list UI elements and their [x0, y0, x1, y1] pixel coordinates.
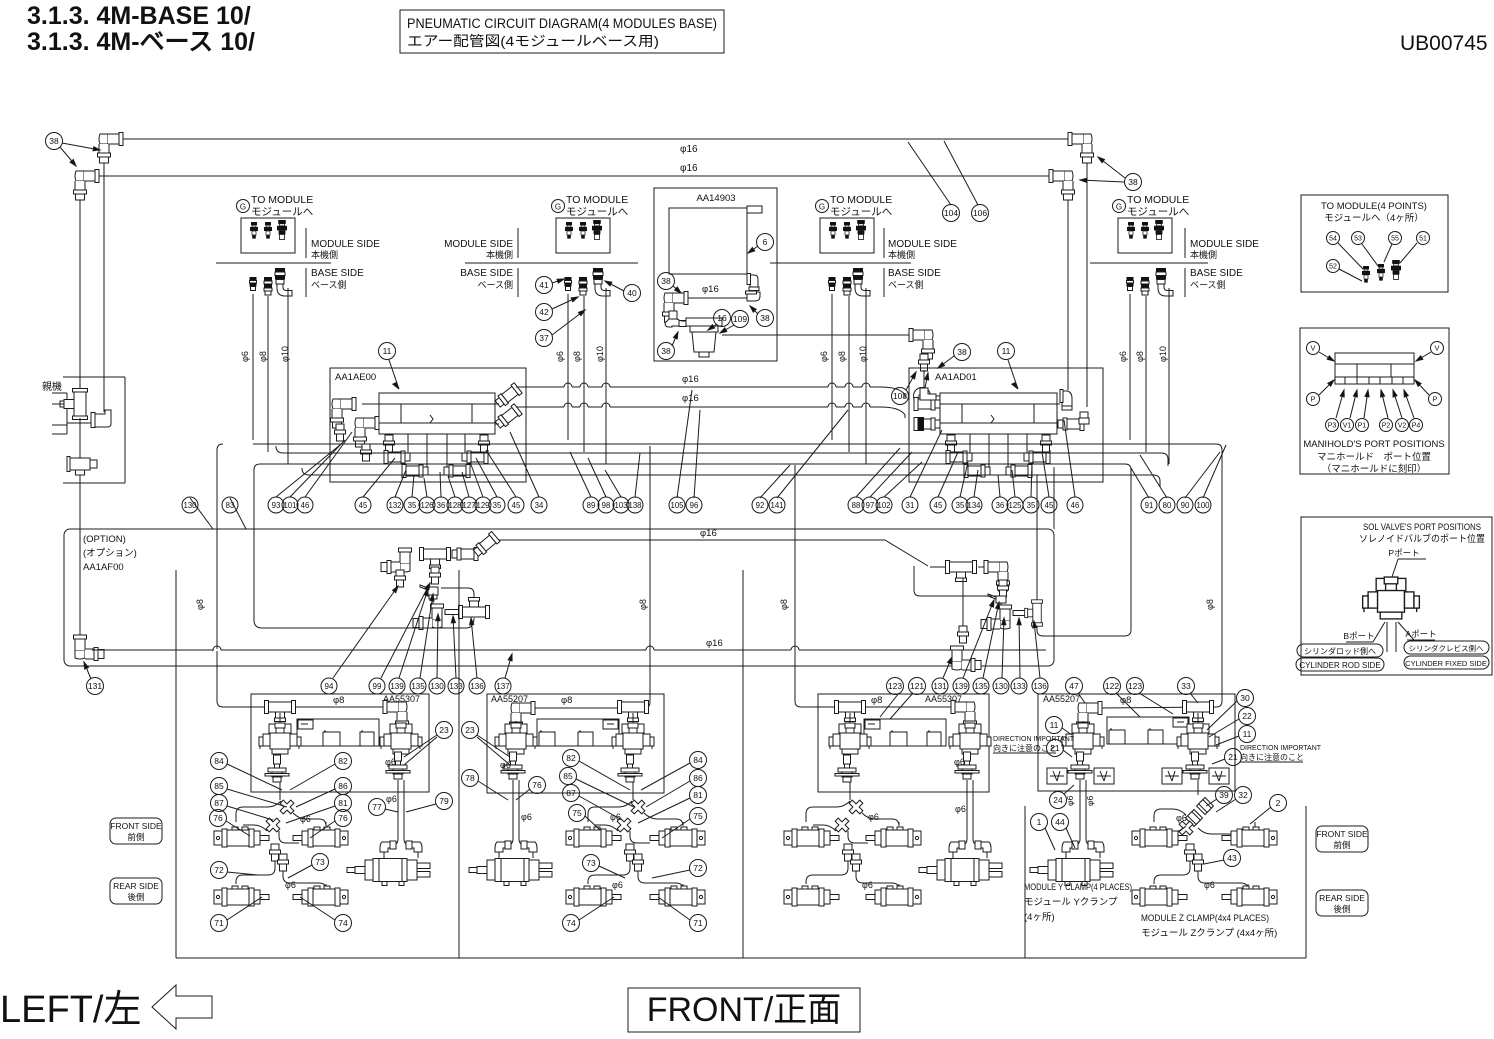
svg-text:後側: 後側: [1333, 904, 1350, 914]
lower tee fitting: [67, 457, 97, 476]
base side fittings section1: [250, 277, 257, 291]
center-left stack below tee: [431, 568, 433, 572]
svg-text:φ16: φ16: [706, 638, 723, 649]
SOL VALVE PORT POSITIONS box: [1301, 517, 1492, 675]
elbow at x108: [91, 410, 111, 428]
balloon 36: [992, 497, 1008, 513]
svg-text:80: 80: [1163, 501, 1172, 510]
clamp group 4 box AA55207: [1038, 694, 1235, 791]
svg-text:φ16: φ16: [680, 163, 698, 174]
balloon 92: [752, 497, 768, 513]
svg-text:133: 133: [449, 682, 463, 691]
group2 valve right: [632, 713, 634, 726]
svg-text:135: 135: [974, 682, 988, 691]
svg-text:φ6: φ6: [1176, 813, 1187, 823]
svg-text:FRONT SIDE: FRONT SIDE: [110, 821, 162, 831]
svg-text:φ6: φ6: [1204, 880, 1215, 890]
balloon 31: [902, 497, 918, 513]
AE00 right diagonal fittings: [494, 383, 522, 409]
group4 top pipe: [1100, 707, 1216, 708]
group1 valve left: [279, 713, 281, 726]
balloon 85: [211, 778, 228, 795]
svg-text:123: 123: [888, 681, 902, 691]
balloon 35: [952, 497, 968, 513]
svg-text:TO MODULE: TO MODULE: [830, 194, 892, 206]
group1 cross fittings: [276, 796, 297, 817]
balloon 24: [1050, 792, 1067, 809]
svg-text:P: P: [1310, 395, 1315, 404]
balloon P: [1307, 393, 1320, 406]
svg-text:前側: 前側: [127, 832, 144, 842]
group1 lower fittings: [270, 844, 281, 861]
svg-text:φ6: φ6: [954, 757, 965, 767]
group3 top pipe: [801, 706, 958, 708]
svg-text:94: 94: [325, 682, 334, 691]
balloon 84: [690, 752, 707, 769]
svg-text:本機側: 本機側: [1190, 249, 1217, 260]
svg-text:130: 130: [994, 682, 1008, 691]
svg-text:ソレノイドバルブのポート位置: ソレノイドバルブのポート位置: [1359, 533, 1485, 545]
svg-text:φ6: φ6: [819, 351, 829, 362]
balloon 91: [1141, 497, 1157, 513]
svg-text:46: 46: [1071, 501, 1080, 510]
svg-text:123: 123: [1128, 681, 1142, 691]
balloon 41: [536, 277, 553, 294]
balloon 131: [932, 678, 948, 694]
svg-text:91: 91: [1145, 501, 1154, 510]
balloon 135: [973, 678, 989, 694]
balloon 21: [1225, 749, 1242, 766]
balloon 82: [563, 750, 580, 767]
balloon 38: [757, 310, 774, 327]
svg-text:74: 74: [566, 918, 576, 928]
balloon 34: [531, 497, 547, 513]
balloon P2: [1380, 419, 1393, 432]
svg-text:136: 136: [1033, 682, 1047, 691]
wire: lower line to left bus vertical: [466, 618, 474, 628]
balloon 75: [690, 808, 707, 825]
balloon 38: [954, 344, 971, 361]
group4 diamond fittings: [1197, 798, 1214, 815]
svg-text:35: 35: [408, 501, 417, 510]
svg-text:53: 53: [1354, 236, 1362, 243]
balloon P: [1429, 393, 1442, 406]
balloon 85: [560, 768, 577, 785]
svg-text:φ16: φ16: [700, 528, 717, 539]
balloon 78: [462, 770, 479, 787]
svg-text:φ6: φ6: [285, 880, 296, 890]
bus line L4: [302, 468, 1160, 481]
svg-text:P2: P2: [1382, 423, 1391, 430]
svg-text:(4ヶ所): (4ヶ所): [1024, 912, 1055, 923]
svg-text:86: 86: [338, 781, 348, 791]
center-right elbow turning down: [984, 561, 1010, 592]
balloon 130: [182, 497, 198, 513]
svg-text:75: 75: [572, 808, 582, 818]
svg-text:AA1AD01: AA1AD01: [935, 372, 977, 383]
svg-text:46: 46: [301, 501, 310, 510]
svg-text:38: 38: [661, 276, 671, 286]
TO MODULE label group at x=268: [237, 200, 250, 213]
svg-text:V1: V1: [1343, 423, 1352, 430]
svg-text:35: 35: [956, 501, 965, 510]
lower elbow/pipe/tee chain: [432, 599, 434, 605]
svg-text:87: 87: [214, 798, 224, 808]
balloon 96: [686, 497, 702, 513]
balloon 42: [536, 304, 553, 321]
svg-text:SOL VALVE'S PORT POSITIONS: SOL VALVE'S PORT POSITIONS: [1363, 522, 1481, 533]
svg-text:137: 137: [496, 682, 510, 691]
elbow left inside AA14903: [663, 292, 689, 323]
svg-text:11: 11: [1002, 346, 1011, 356]
group4 lower fittings: [1185, 844, 1196, 861]
manifold body AE00: [379, 393, 495, 434]
balloon 2: [1270, 795, 1287, 812]
svg-text:139: 139: [954, 682, 968, 691]
balloon 76: [335, 810, 352, 827]
AD01 right elbow top: [1060, 390, 1072, 411]
svg-text:88: 88: [852, 501, 861, 510]
svg-text:128: 128: [448, 501, 461, 510]
balloon 125: [1007, 497, 1023, 513]
balloon 74: [335, 915, 352, 932]
svg-text:86: 86: [693, 773, 703, 783]
svg-text:138: 138: [628, 501, 641, 510]
svg-text:ベース側: ベース側: [888, 279, 924, 290]
balloon 133: [1011, 678, 1027, 694]
balloon 94: [321, 678, 337, 694]
balloon 11 leader AE00: [389, 360, 399, 389]
base side fittings section3: [829, 277, 836, 291]
svg-text:MODULE Y CLAMP(4 PLACES): MODULE Y CLAMP(4 PLACES): [1024, 882, 1132, 893]
balloon 137: [495, 678, 511, 694]
balloon V: [1431, 342, 1444, 355]
title box: [400, 10, 724, 53]
balloon 35: [1023, 497, 1039, 513]
balloon 131: [87, 678, 104, 695]
balloon 86: [690, 770, 707, 787]
svg-text:106: 106: [973, 208, 987, 218]
balloon 100: [1195, 497, 1211, 513]
balloon 23: [462, 722, 479, 739]
svg-text:REAR SIDE: REAR SIDE: [113, 881, 159, 891]
svg-text:55: 55: [1391, 236, 1399, 243]
svg-text:76: 76: [532, 780, 542, 790]
balloon 134: [966, 497, 982, 513]
elbow right of tank: [747, 274, 759, 291]
balloon P3: [1326, 419, 1339, 432]
svg-text:76: 76: [338, 813, 348, 823]
svg-text:38: 38: [957, 347, 967, 357]
svg-text:DIRECTION IMPORTANT: DIRECTION IMPORTANT: [1240, 745, 1322, 752]
AE00 bottom drops: [388, 434, 390, 440]
balloon 6: [757, 234, 774, 251]
svg-text:φ6: φ6: [868, 812, 879, 822]
balloon 21: [1047, 740, 1064, 757]
balloon 30: [1237, 690, 1254, 707]
svg-text:81: 81: [338, 798, 348, 808]
svg-text:32: 32: [1238, 790, 1248, 800]
svg-text:FRONT/正面: FRONT/正面: [647, 991, 842, 1029]
center-left diagonal fitting: [472, 531, 500, 558]
REAR SIDE label: [110, 878, 162, 904]
group2 Y-clamp: [495, 841, 511, 852]
svg-text:97: 97: [866, 501, 875, 510]
svg-text:22: 22: [1242, 711, 1252, 721]
svg-text:φ6: φ6: [1118, 351, 1128, 362]
svg-text:φ6: φ6: [862, 880, 873, 890]
AD01 supply elbow from filter line: [920, 388, 936, 400]
stack under elbow: [998, 580, 1009, 597]
svg-text:38: 38: [661, 346, 671, 356]
svg-text:本機側: 本機側: [311, 249, 338, 260]
section heading: [27, 2, 1488, 56]
svg-text:141: 141: [770, 501, 783, 510]
svg-text:45: 45: [934, 501, 943, 510]
svg-text:11: 11: [383, 346, 392, 356]
svg-text:BASE SIDE: BASE SIDE: [1190, 268, 1243, 279]
svg-text:23: 23: [439, 725, 449, 735]
svg-text:親機: 親機: [42, 380, 62, 393]
svg-text:38: 38: [760, 313, 770, 323]
svg-text:76: 76: [213, 813, 223, 823]
svg-text:90: 90: [1181, 501, 1190, 510]
svg-text:本機側: 本機側: [486, 249, 513, 260]
group3 front routing: [806, 801, 850, 822]
svg-text:PNEUMATIC CIRCUIT DIAGRAM(4 MO: PNEUMATIC CIRCUIT DIAGRAM(4 MODULES BASE…: [407, 16, 717, 32]
balloon 89: [583, 497, 599, 513]
svg-text:G: G: [555, 203, 561, 212]
balloon 101: [282, 497, 298, 513]
svg-text:6: 6: [763, 237, 768, 247]
svg-text:40: 40: [627, 288, 637, 298]
svg-text:前側: 前側: [1333, 840, 1350, 850]
svg-text:135: 135: [411, 682, 425, 691]
FRONT SIDE label: [1316, 826, 1368, 852]
svg-text:φ6: φ6: [386, 794, 397, 804]
AA14903 air unit box: [654, 188, 777, 361]
svg-text:100: 100: [1196, 501, 1210, 510]
svg-text:105: 105: [670, 501, 684, 510]
center-left cluster: elbow with stem: [381, 548, 412, 574]
svg-text:AA14903: AA14903: [696, 193, 735, 204]
group3 valve left: [849, 713, 851, 726]
svg-text:φ8: φ8: [638, 599, 648, 610]
svg-text:φ10: φ10: [1158, 346, 1168, 362]
svg-text:23: 23: [465, 725, 475, 735]
pipe phi16 inside AA14903: [683, 297, 747, 299]
svg-text:37: 37: [539, 333, 549, 343]
svg-text:34: 34: [535, 501, 544, 510]
balloon 46: [297, 497, 313, 513]
bus line L3: [254, 464, 1131, 470]
FRONT SIDE label: [110, 818, 162, 844]
group4 front routing: [1154, 809, 1186, 822]
svg-text:130: 130: [430, 682, 444, 691]
svg-text:78: 78: [465, 773, 475, 783]
balloon 11: [998, 343, 1015, 360]
svg-text:131: 131: [88, 681, 102, 691]
group3 plate: [864, 719, 946, 746]
group1 Y cylinder: [347, 859, 430, 886]
balloon 52: [1327, 260, 1340, 273]
MANIFOLD PORT POSITIONS box: [1300, 328, 1449, 474]
TO MODULE label group at x=847: [816, 200, 829, 213]
svg-text:24: 24: [1053, 795, 1063, 805]
center-right cluster tee: [946, 561, 977, 582]
svg-text:125: 125: [1008, 501, 1022, 510]
balloon 128: [447, 497, 463, 513]
balloon 103: [613, 497, 629, 513]
svg-text:82: 82: [338, 756, 348, 766]
svg-text:134: 134: [967, 501, 981, 510]
svg-text:42: 42: [539, 307, 549, 317]
svg-text:2: 2: [1276, 798, 1281, 808]
svg-text:33: 33: [1181, 681, 1191, 691]
group2 cross fittings: [627, 796, 648, 817]
svg-text:132: 132: [388, 501, 401, 510]
svg-text:φ6: φ6: [612, 880, 623, 890]
svg-text:TO MODULE(4 POINTS): TO MODULE(4 POINTS): [1321, 201, 1427, 212]
svg-text:84: 84: [214, 756, 224, 766]
AD01 left fittings: [914, 398, 940, 411]
svg-text:AA1AE00: AA1AE00: [335, 372, 376, 383]
svg-text:φ8: φ8: [1205, 599, 1215, 610]
balloon 123: [887, 678, 904, 695]
group1 front cylinders: [214, 827, 269, 847]
balloon 73: [312, 854, 329, 871]
svg-text:モジュールへ: モジュールへ: [1127, 206, 1189, 218]
balloon 35: [404, 497, 420, 513]
svg-text:モジュールへ: モジュールへ: [830, 206, 892, 218]
svg-text:47: 47: [1069, 681, 1079, 691]
svg-text:81: 81: [693, 790, 703, 800]
svg-text:45: 45: [359, 501, 368, 510]
svg-text:11: 11: [1050, 720, 1059, 730]
svg-text:36: 36: [437, 501, 446, 510]
svg-text:75: 75: [693, 811, 703, 821]
balloon 76: [529, 777, 546, 794]
svg-text:85: 85: [563, 771, 573, 781]
svg-text:Aポート: Aポート: [1405, 629, 1436, 639]
svg-text:104: 104: [944, 208, 958, 218]
center-left tee: [420, 548, 451, 569]
balloon 87: [211, 795, 228, 812]
svg-text:126: 126: [420, 501, 433, 510]
AE00 left elbow B: [354, 417, 380, 448]
svg-text:54: 54: [1329, 236, 1337, 243]
balloon 1: [1031, 814, 1048, 831]
svg-text:G: G: [819, 203, 825, 212]
balloon 23: [436, 722, 453, 739]
svg-text:38: 38: [49, 136, 59, 146]
balloon 76: [210, 810, 227, 827]
phi16 inter-manifold lines: [516, 386, 880, 388]
svg-text:11: 11: [1243, 729, 1252, 739]
svg-text:向きに注意のこと: 向きに注意のこと: [1240, 752, 1304, 762]
right step line: [914, 566, 996, 596]
svg-text:G: G: [240, 203, 246, 212]
balloon 126: [419, 497, 435, 513]
wire: right verticals from top elbows: [1086, 163, 1088, 407]
base side fittings section2: [565, 277, 572, 291]
svg-text:MODULE SIDE: MODULE SIDE: [311, 239, 380, 250]
balloon 53: [1352, 232, 1365, 245]
balloon 108: [892, 388, 909, 405]
svg-text:3.1.3. 4M-BASE 10/: 3.1.3. 4M-BASE 10/: [27, 2, 251, 30]
group1 plate: [297, 719, 379, 746]
svg-text:ベース側: ベース側: [1190, 279, 1226, 290]
balloon 105: [669, 497, 685, 513]
svg-text:122: 122: [1105, 681, 1119, 691]
svg-text:CYLINDER FIXED SIDE: CYLINDER FIXED SIDE: [1405, 659, 1487, 668]
svg-text:エアー配管図(4モジュールベース用): エアー配管図(4モジュールベース用): [407, 34, 659, 50]
svg-text:後側: 後側: [127, 892, 144, 902]
svg-text:CYLINDER ROD SIDE: CYLINDER ROD SIDE: [1299, 661, 1380, 670]
balloon 127: [461, 497, 477, 513]
svg-text:92: 92: [756, 501, 765, 510]
group1 rear cylinders: [214, 886, 269, 906]
TO MODULE label group at x=1145: [1113, 200, 1126, 213]
pipe phi16 top line 1: [123, 138, 1068, 140]
svg-text:30: 30: [1240, 693, 1250, 703]
balloon 22: [1239, 708, 1256, 725]
balloon 129: [475, 497, 491, 513]
balloon 36: [433, 497, 449, 513]
balloon 44: [1052, 814, 1069, 831]
svg-text:φ8: φ8: [837, 351, 847, 362]
balloon 141: [769, 497, 785, 513]
balloon 104: [943, 205, 960, 222]
filter outlet line phi16: [722, 334, 919, 336]
balloon 75: [569, 805, 586, 822]
svg-text:MODULE SIDE: MODULE SIDE: [444, 239, 513, 250]
svg-text:72: 72: [214, 865, 224, 875]
svg-text:39: 39: [1219, 790, 1229, 800]
balloon 82: [335, 753, 352, 770]
balloon 87: [563, 785, 580, 802]
balloon 71: [690, 915, 707, 932]
svg-text:41: 41: [539, 280, 549, 290]
group2 lower fittings: [625, 844, 636, 861]
balloon 45: [1041, 497, 1057, 513]
svg-text:φ16: φ16: [702, 284, 719, 295]
svg-text:36: 36: [996, 501, 1005, 510]
balloon 11: [1239, 726, 1256, 743]
svg-text:P: P: [1432, 395, 1437, 404]
balloon V2: [1396, 419, 1409, 432]
clamp group 1 box AA55307: [251, 694, 429, 792]
flag fitting: [420, 585, 438, 599]
module area frame: [175, 570, 177, 958]
separator line module/base side section1: [216, 262, 331, 264]
svg-text:139: 139: [390, 682, 404, 691]
svg-text:129: 129: [476, 501, 489, 510]
svg-text:φ8: φ8: [561, 695, 572, 706]
group4 Y-clamp: [1062, 841, 1078, 852]
sol valve big symbol: [1363, 577, 1420, 619]
balloon 45: [355, 497, 371, 513]
svg-text:101: 101: [283, 501, 296, 510]
balloon 99: [369, 678, 385, 694]
svg-text:BASE SIDE: BASE SIDE: [311, 268, 364, 279]
manifold AA1AD01 outer box: [909, 368, 1103, 482]
svg-text:φ8: φ8: [1135, 351, 1145, 362]
svg-text:モジュール Zクランプ (4x4ヶ所): モジュール Zクランプ (4x4ヶ所): [1141, 928, 1277, 939]
balloon 40: [624, 285, 641, 302]
cylinder side ovals: [1297, 644, 1383, 657]
balloon 86: [335, 778, 352, 795]
